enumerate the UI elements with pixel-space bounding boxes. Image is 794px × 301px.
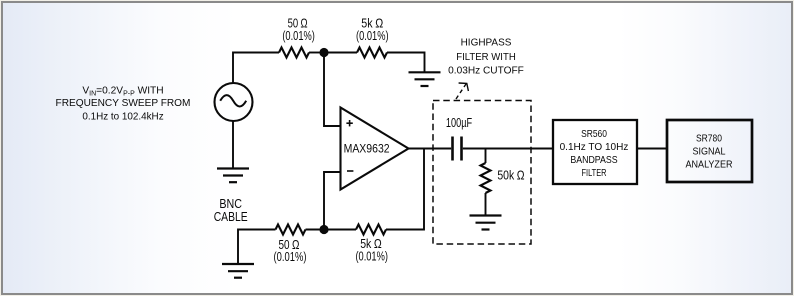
label BNC cable [214, 197, 248, 224]
wire op-amp output to capacitor [409, 148, 452, 150]
ground below source [217, 169, 249, 183]
svg-text:BNC: BNC [219, 197, 242, 211]
resistor R4 5k ohm 0.01% feedback [356, 225, 386, 235]
resistor R1 50 ohm 0.01% top [279, 48, 309, 58]
wire node A down to noninverting input [324, 53, 341, 127]
wire node B to R4 [324, 229, 356, 231]
svg-text:SIGNAL: SIGNAL [693, 147, 726, 158]
svg-text:(0.01%): (0.01%) [282, 28, 315, 43]
svg-text:FILTER WITH: FILTER WITH [456, 52, 516, 63]
svg-text:FILTER: FILTER [582, 168, 607, 179]
svg-text:0.03Hz CUTOFF: 0.03Hz CUTOFF [448, 66, 524, 77]
wire SR560 to SR780 [637, 148, 667, 150]
svg-text:50k Ω: 50k Ω [497, 168, 524, 183]
resistor R2 5k ohm 0.01% top [357, 48, 387, 58]
wire R2 to top-right ground corner [387, 53, 425, 73]
svg-text:ANALYZER: ANALYZER [686, 160, 733, 171]
label R4 value 5k ohm 0.01% [355, 236, 388, 264]
svg-text:(0.01%): (0.01%) [274, 249, 307, 264]
callout arrow to highpass box [456, 83, 468, 99]
wire source to ground [232, 121, 234, 169]
svg-text:SR560: SR560 [581, 129, 607, 140]
svg-text:FREQUENCY SWEEP FROM: FREQUENCY SWEEP FROM [56, 98, 191, 109]
label R3 value 50 ohm 0.01% [274, 237, 307, 264]
svg-text:CABLE: CABLE [214, 210, 248, 224]
svg-text:MAX9632: MAX9632 [344, 141, 390, 155]
wire top rail left segment [233, 53, 279, 84]
label R1 value 50 ohm 0.01% [282, 15, 315, 43]
svg-text:(0.01%): (0.01%) [355, 249, 388, 264]
svg-text:BANDPASS: BANDPASS [570, 155, 617, 166]
ground below BNC cable [222, 264, 254, 278]
wire node A to R2 [324, 52, 357, 54]
svg-text:100µF: 100µF [446, 115, 472, 130]
svg-text:HIGHPASS: HIGHPASS [461, 38, 512, 49]
svg-text:0.1Hz to 102.4kHz: 0.1Hz to 102.4kHz [82, 112, 163, 123]
label SR560 box text [560, 129, 629, 179]
ground below 50k resistor [470, 216, 502, 230]
svg-text:0.1Hz TO 10Hz: 0.1Hz TO 10Hz [560, 142, 629, 153]
op-amp U1 MAX9632 [341, 108, 409, 190]
capacitor C1 100uF [453, 137, 462, 161]
wire R4 to feedback corner [386, 149, 424, 230]
label R2 value 5k ohm 0.01% [356, 15, 389, 43]
wire node B up to inverting input [324, 172, 341, 230]
wire BNC corner to R3 [238, 230, 276, 265]
box SR780 signal analyzer [667, 120, 752, 182]
wire 50k resistor to ground [485, 193, 487, 216]
source V1 sine generator [215, 83, 253, 121]
wire R3 to node B [306, 229, 325, 231]
wire 50k resistor top connection [485, 149, 487, 164]
ground top-right [409, 72, 441, 86]
resistor R3 50 ohm 0.01% bottom [276, 225, 306, 235]
wire R1 to node A [309, 52, 324, 54]
op-amp plus pin mark [346, 120, 352, 126]
svg-text:(0.01%): (0.01%) [356, 28, 389, 43]
op-amp minus pin mark [347, 170, 353, 172]
node A junction dot [319, 48, 328, 57]
svg-text:SR780: SR780 [696, 134, 722, 145]
box SR560 bandpass filter [553, 120, 637, 184]
node B junction dot [319, 225, 328, 234]
label SR780 box text [686, 134, 733, 171]
resistor R5 50k ohm [481, 163, 491, 193]
highpass filter dashed outline [433, 101, 531, 245]
label highpass filter callout [448, 38, 524, 77]
label input source description [56, 85, 191, 122]
wire capacitor to SR560 [463, 148, 553, 150]
